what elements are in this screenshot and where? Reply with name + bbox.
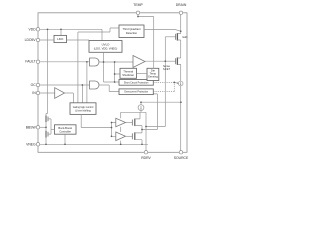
svg-text:& level shifting: & level shifting [75,110,91,113]
svg-text:BBSW: BBSW [26,125,37,129]
svg-text:(LDO, VDD, VNEG): (LDO, VDD, VNEG) [94,46,118,50]
svg-text:Buck-Boost: Buck-Boost [58,126,72,130]
svg-text:Controller: Controller [59,130,71,134]
svg-text:UVLO: UVLO [102,42,111,46]
svg-text:TEMP: TEMP [133,3,143,7]
svg-text:Shutdown: Shutdown [122,73,134,77]
svg-text:DRAIN: DRAIN [176,3,187,7]
svg-text:Sensing: Sensing [148,75,158,79]
svg-text:Overcurrent Protection: Overcurrent Protection [124,91,149,94]
svg-text:Thermal: Thermal [123,70,133,74]
svg-text:VDD: VDD [29,27,37,31]
svg-text:Short Circuit Protection: Short Circuit Protection [124,81,149,84]
svg-text:FAULT: FAULT [25,60,35,64]
svg-text:LDO: LDO [57,37,64,41]
svg-text:OC: OC [31,83,37,87]
svg-text:Gating logic control: Gating logic control [73,106,94,109]
svg-text:GaN: GaN [182,36,187,39]
svg-text:RDRV: RDRV [141,156,151,160]
svg-text:LDO5V: LDO5V [25,38,37,42]
svg-text:IN: IN [32,91,36,95]
svg-text:VNEG: VNEG [26,142,36,146]
svg-text:SOURCE: SOURCE [174,156,189,160]
svg-text:Detection: Detection [126,31,138,35]
svg-text:Third Quadrant: Third Quadrant [122,27,140,31]
svg-text:S-FET: S-FET [163,68,171,71]
